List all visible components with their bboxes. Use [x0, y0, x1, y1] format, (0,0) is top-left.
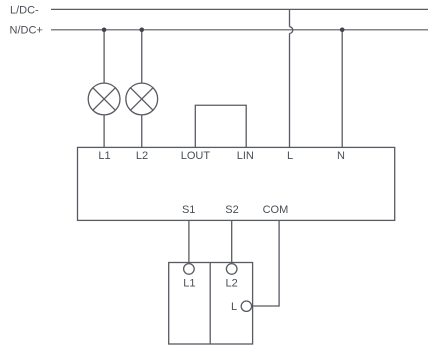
svg-text:LIN: LIN — [237, 150, 254, 162]
svg-text:N: N — [337, 150, 345, 162]
svg-text:L2: L2 — [136, 150, 148, 162]
svg-text:L1: L1 — [98, 150, 110, 162]
svg-text:L/DC-: L/DC- — [10, 5, 39, 17]
svg-text:S1: S1 — [182, 204, 195, 216]
svg-text:L: L — [231, 301, 237, 313]
svg-text:COM: COM — [263, 204, 289, 216]
svg-text:L: L — [287, 150, 293, 162]
svg-text:S2: S2 — [225, 204, 238, 216]
svg-text:LOUT: LOUT — [181, 150, 211, 162]
svg-text:L2: L2 — [225, 278, 237, 290]
svg-text:N/DC+: N/DC+ — [10, 24, 43, 36]
svg-text:L1: L1 — [183, 278, 195, 290]
